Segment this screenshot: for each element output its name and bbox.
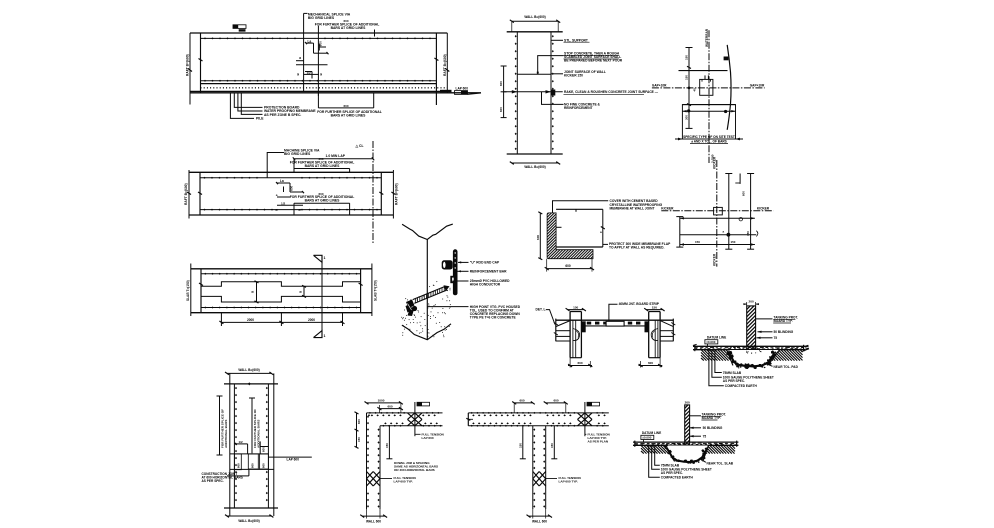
slab aggregate dashes <box>695 347 698 348</box>
right dimension <box>602 209 604 247</box>
svg-text:600: 600 <box>250 463 254 468</box>
svg-text:GAP+10R: GAP+10R <box>750 84 765 88</box>
edge angles (dark) <box>582 321 586 332</box>
bar section circles <box>739 218 742 221</box>
section line through X <box>584 402 586 436</box>
svg-text:600: 600 <box>565 264 571 268</box>
membrane L-shape hatched <box>547 213 593 259</box>
bottom rebar w ticks <box>201 307 361 309</box>
horizontal wall bottom line w ticks <box>380 425 443 427</box>
svg-text:LAP 600: LAP 600 <box>456 87 469 91</box>
inner wall bottom line <box>556 246 603 248</box>
section line through X <box>414 402 416 436</box>
svg-text:RAFT B=(600): RAFT B=(600) <box>186 54 190 76</box>
svg-text:WALL B=(600): WALL B=(600) <box>238 519 259 523</box>
body edges <box>199 172 201 215</box>
leader: rod end cap <box>458 261 469 263</box>
note: steel support <box>551 39 563 41</box>
top rebar w ticks <box>200 177 381 179</box>
svg-text:BARS AT GRID LINES: BARS AT GRID LINES <box>331 26 367 30</box>
top dimension left of stem <box>514 402 533 404</box>
svg-text:TYPE PE T=6 CM CONCRETE: TYPE PE T=6 CM CONCRETE <box>470 316 517 320</box>
clamp block on curve <box>724 57 729 61</box>
svg-text:600: 600 <box>319 192 324 196</box>
lap note at stem X <box>546 478 557 480</box>
slab end marks <box>634 441 636 447</box>
hatched wall <box>747 306 756 350</box>
svg-text:MEMBRANE AT WALL JOINT: MEMBRANE AT WALL JOINT <box>610 206 655 210</box>
svg-text:SLAB T=(150): SLAB T=(150) <box>373 280 377 301</box>
wall right line w ticks <box>550 32 552 154</box>
bottom rebar w ticks <box>200 209 381 211</box>
svg-text:600: 600 <box>387 404 392 408</box>
svg-text:BARS AT GRID LINES: BARS AT GRID LINES <box>305 199 341 203</box>
wall right line w ticks <box>267 384 269 508</box>
rubble in pit <box>667 448 708 463</box>
svg-text:KICKER: KICKER <box>757 207 770 211</box>
inner splice bracket <box>251 398 253 453</box>
centre column box <box>714 207 723 215</box>
bottom dimension arrows <box>675 138 682 140</box>
svg-text:1/2: 1/2 <box>281 202 286 206</box>
svg-text:75: 75 <box>703 434 707 438</box>
bottom dimension <box>362 515 385 517</box>
section flag pole <box>321 262 323 331</box>
hook bars in right kicker <box>651 329 658 341</box>
raft right edge <box>435 33 437 105</box>
horizontal wall bottom line w ticks <box>468 425 609 427</box>
X lap mark in horizontal wall <box>578 413 585 420</box>
hatched wall <box>685 405 690 448</box>
svg-text:600: 600 <box>499 107 503 112</box>
note leader 2 <box>690 427 701 429</box>
svg-text:1.0 MIN LAP: 1.0 MIN LAP <box>326 154 346 158</box>
top dimension <box>227 372 271 374</box>
section flag right with LAP text <box>440 90 452 93</box>
svg-text:1/2: 1/2 <box>307 71 312 75</box>
coupler cylinder <box>442 260 453 269</box>
svg-text:600: 600 <box>344 104 349 108</box>
top edge <box>224 383 278 385</box>
svg-text:40: 40 <box>693 88 697 92</box>
construction joint line 1 <box>517 73 551 75</box>
lap note at X <box>585 433 586 435</box>
right dimension line <box>371 264 373 317</box>
svg-text:600: 600 <box>357 419 361 424</box>
bottom chord line <box>201 83 437 85</box>
centre line (dash-dot) <box>372 141 374 243</box>
svg-text:50 BLINDING: 50 BLINDING <box>703 426 723 430</box>
soil hatch band <box>701 358 704 361</box>
svg-text:SLAB T=(150): SLAB T=(150) <box>186 280 190 301</box>
svg-text:COMPACTED EARTH: COMPACTED EARTH <box>661 476 694 480</box>
top dimension 1 <box>367 402 401 404</box>
step bracket left <box>236 443 248 445</box>
bottom dimension <box>512 162 558 164</box>
svg-text:AS PER PLAN: AS PER PLAN <box>588 440 609 444</box>
drill chuck blobs <box>406 300 415 309</box>
bent waterstop curve <box>727 45 731 130</box>
X lap mark in horizontal wall <box>408 413 415 420</box>
lap boxes <box>234 454 241 470</box>
svg-text:150: 150 <box>685 75 689 80</box>
inner dimension 150 <box>388 426 390 459</box>
note: tanking leader <box>756 318 773 320</box>
joint bottom line between kickers <box>581 325 648 327</box>
joint line lower <box>230 468 274 470</box>
left wing slab <box>555 319 557 342</box>
centre box (column) <box>700 79 713 95</box>
left dim line <box>679 217 681 248</box>
vertical dim line 2 <box>750 174 752 250</box>
cover plate <box>606 321 624 326</box>
svg-text:KICKER: KICKER <box>713 156 717 169</box>
pile cap line <box>190 90 447 92</box>
body edges <box>200 269 202 313</box>
svg-text:PILE: PILE <box>256 117 264 121</box>
bottom rebar with ticks <box>201 80 437 82</box>
top dimension right of stem <box>546 402 566 404</box>
inner tie line with bar circles <box>682 110 735 112</box>
wall left end <box>467 413 469 426</box>
left kicker top dim <box>568 309 584 311</box>
bottom dimension <box>547 268 592 270</box>
svg-text:La: La <box>308 39 312 43</box>
svg-text:±0.000: ±0.000 <box>642 436 651 440</box>
horizontal centreline <box>661 210 773 212</box>
leader: reinforcement bar <box>456 270 469 272</box>
left pour bracket <box>503 66 505 118</box>
right bottom dimension <box>639 365 663 367</box>
tie line 2 with end hook <box>680 234 757 236</box>
bottom dimension <box>227 515 271 517</box>
svg-text:200: 200 <box>685 400 690 404</box>
svg-text:BARS AT GRID LINES: BARS AT GRID LINES <box>305 164 341 168</box>
splice step symbol lower <box>296 64 328 66</box>
svg-text:± AND X TOL. OF BARS: ± AND X TOL. OF BARS <box>691 139 727 143</box>
leader to stop-concrete note <box>538 56 564 75</box>
hook bars in left kicker <box>573 329 580 341</box>
svg-text:300: 300 <box>685 115 689 120</box>
svg-text:75: 75 <box>774 336 778 340</box>
raft left edge <box>200 33 202 93</box>
svg-text:1: 1 <box>324 334 326 338</box>
svg-text:600: 600 <box>290 185 294 190</box>
sleeve on rod <box>450 276 457 283</box>
svg-text:600: 600 <box>519 399 524 403</box>
vertical centreline <box>708 30 710 163</box>
lap note at X <box>415 433 421 435</box>
svg-text:WALL B=(600): WALL B=(600) <box>524 165 545 169</box>
top chord <box>191 268 372 270</box>
svg-text:GAP+10R: GAP+10R <box>652 84 667 88</box>
horizontal wall top line w ticks <box>468 412 609 414</box>
top edge <box>507 31 563 33</box>
svg-text:REINFORCEMENT: REINFORCEMENT <box>564 106 593 110</box>
right kicker top dim <box>646 309 662 311</box>
svg-text:BIG GRID LINES: BIG GRID LINES <box>308 16 335 20</box>
svg-text:△ CL: △ CL <box>355 144 364 148</box>
leader into wall <box>556 226 561 228</box>
staggered lap line upper <box>201 282 361 287</box>
left dimension line <box>688 48 690 129</box>
splice leader verticals <box>303 13 305 91</box>
svg-text:"U" ROD END CAP: "U" ROD END CAP <box>470 261 500 265</box>
note leader 3 <box>690 435 701 437</box>
horizontal wall top line w ticks <box>367 412 443 414</box>
excavation pit <box>666 446 708 462</box>
wall left line w ticks <box>516 32 518 154</box>
svg-text:WALL B=(600): WALL B=(600) <box>524 15 545 19</box>
top chord line <box>190 32 447 34</box>
svg-text:KICKER: KICKER <box>661 207 674 211</box>
lap note at stem X <box>380 478 392 480</box>
svg-text:600: 600 <box>262 463 266 468</box>
inner dimension left 150 <box>522 426 524 459</box>
section flag box <box>587 402 600 406</box>
svg-text:600: 600 <box>319 157 324 161</box>
svg-text:150: 150 <box>652 305 657 309</box>
vertical dim line 1 <box>728 174 730 250</box>
svg-text:600: 600 <box>261 447 265 452</box>
svg-text:2000: 2000 <box>247 318 254 322</box>
rock stipple texture <box>434 305 435 306</box>
wall left line w ticks <box>233 384 235 508</box>
left dimension <box>539 213 541 259</box>
joint filler dashes <box>587 322 591 325</box>
top rebar w ticks <box>201 273 361 275</box>
svg-text:DATUM LINE: DATUM LINE <box>707 335 726 339</box>
svg-text:RAFT B=(600): RAFT B=(600) <box>184 183 188 205</box>
left kicker walls <box>569 312 571 358</box>
svg-text:600: 600 <box>577 361 582 365</box>
vertical wall left line w ticks <box>366 413 368 509</box>
leaders to bottom notes <box>715 350 722 373</box>
rock break line bottom <box>402 324 451 340</box>
joint line upper <box>230 453 269 455</box>
note: near tol slab <box>700 458 706 462</box>
right kicker walls <box>648 312 650 358</box>
svg-text:600: 600 <box>741 191 745 196</box>
svg-text:DET. L: DET. L <box>536 308 546 312</box>
X lap mark in stem <box>533 472 539 479</box>
splice step symbols <box>277 182 290 184</box>
bottom edge <box>224 507 278 509</box>
left dimension line <box>189 33 191 105</box>
svg-text:SPECIFIC TYPE OF ON SITE TEST: SPECIFIC TYPE OF ON SITE TEST <box>683 135 735 139</box>
hatch second rows <box>371 414 374 416</box>
svg-text:150: 150 <box>685 55 689 60</box>
svg-text:600: 600 <box>536 235 540 240</box>
svg-text:BE PREPARED BEFORE NEXT POUR: BE PREPARED BEFORE NEXT POUR <box>564 59 623 63</box>
svg-text:BARS AT GRID LINES: BARS AT GRID LINES <box>331 114 367 118</box>
left dimension <box>356 413 358 447</box>
vertical wall right line w ticks <box>379 426 381 509</box>
svg-text:WALL B=(600): WALL B=(600) <box>238 368 259 372</box>
note: near tol pad <box>764 363 773 367</box>
svg-text:600: 600 <box>499 81 503 86</box>
membrane leader <box>553 201 609 213</box>
leader: pvc conductor <box>453 280 469 282</box>
svg-text:NEAR TOL. PAD: NEAR TOL. PAD <box>774 365 799 369</box>
note: 75 leader <box>757 337 773 339</box>
right dimension line <box>446 33 448 93</box>
grade slab <box>693 345 805 347</box>
svg-text:RAFT B=(600): RAFT B=(600) <box>394 183 398 205</box>
svg-text:150: 150 <box>519 443 523 448</box>
rock break line top <box>402 224 453 239</box>
svg-text:150: 150 <box>573 305 578 309</box>
svg-text:75MM SLAB: 75MM SLAB <box>723 371 742 375</box>
rubble in pit <box>729 353 775 367</box>
svg-text:LAP 600: LAP 600 <box>287 458 300 462</box>
svg-text:150: 150 <box>695 240 700 244</box>
svg-text:WATERBAR: WATERBAR <box>705 28 709 47</box>
svg-text:600: 600 <box>236 463 240 468</box>
svg-text:150: 150 <box>357 437 361 442</box>
lower kicker rectangle <box>682 105 735 139</box>
svg-text:200: 200 <box>749 300 754 304</box>
slab end marks <box>694 345 696 351</box>
bottom dimension <box>529 515 551 517</box>
bottom chord <box>189 214 393 216</box>
vertical rock edge <box>426 240 428 340</box>
svg-text:150: 150 <box>385 443 389 448</box>
svg-text:LAP 600: LAP 600 <box>422 436 434 440</box>
top rebar with ticks <box>201 37 437 39</box>
svg-text:WALL 600: WALL 600 <box>366 520 381 524</box>
protection board dotted line <box>201 87 448 89</box>
svg-text:LAP 600 TYP.: LAP 600 TYP. <box>394 479 413 483</box>
svg-text:OR 400 HORIZONTAL BARS: OR 400 HORIZONTAL BARS <box>394 468 435 472</box>
svg-text:RAKE, CLEAN & ROUGHEN CONCRETE: RAKE, CLEAN & ROUGHEN CONCRETE JOINT SUR… <box>564 90 659 94</box>
svg-text:150: 150 <box>550 443 554 448</box>
stub bars above box <box>704 75 706 79</box>
section flag top <box>314 255 323 262</box>
svg-text:1: 1 <box>324 256 326 260</box>
top chord <box>189 171 393 173</box>
outer dim verticals <box>229 373 231 516</box>
left bottom dimension <box>568 365 592 367</box>
inner dimension right 150 <box>553 426 555 459</box>
svg-text:DATUM LINE: DATUM LINE <box>642 431 661 435</box>
svg-text:a: a <box>276 193 278 197</box>
staggered lap line lower <box>201 296 361 302</box>
svg-text:REINFORCEMENT BAR: REINFORCEMENT BAR <box>470 270 507 274</box>
leader: high point note <box>427 306 468 308</box>
svg-text:50 BLINDING: 50 BLINDING <box>774 330 794 334</box>
svg-text:LAP 600 TYP.: LAP 600 TYP. <box>559 479 578 483</box>
svg-text:1000: 1000 <box>378 399 385 403</box>
right dimension line <box>392 170 394 219</box>
note leader 1 <box>690 415 701 417</box>
excavation pit <box>728 350 779 365</box>
svg-text:a: a <box>600 230 602 234</box>
section flag bottom <box>314 331 323 338</box>
svg-text:600: 600 <box>319 41 323 46</box>
right wing slab <box>672 319 674 342</box>
inner wall top line <box>556 208 603 210</box>
leaders to bottom notes <box>655 445 660 465</box>
top dimension 2 <box>379 408 401 410</box>
svg-text:AS PER SPEC.: AS PER SPEC. <box>661 471 683 475</box>
step bracket right <box>259 441 261 454</box>
reinforcement bar (vertical rod) <box>453 249 458 295</box>
wall face line upper <box>679 70 728 72</box>
svg-text:TO APPLY AT WALL AS REQUIRED.: TO APPLY AT WALL AS REQUIRED. <box>609 246 665 250</box>
hatched diagonal conductor bar <box>414 290 447 304</box>
svg-text:BIG GRID LINES: BIG GRID LINES <box>284 152 311 156</box>
svg-text:2000: 2000 <box>308 318 315 322</box>
top dimension <box>512 20 558 22</box>
svg-text:NEAR TOL. SLAB: NEAR TOL. SLAB <box>707 461 734 465</box>
lap 600 leader line <box>268 456 311 458</box>
lap connectors <box>256 282 258 302</box>
X lap mark in vertical wall <box>367 472 374 479</box>
svg-text:ADDITIONAL BARS: ADDITIONAL BARS <box>224 420 228 448</box>
svg-text:COMPACTED EARTH: COMPACTED EARTH <box>725 384 758 388</box>
left dimension line <box>190 264 192 317</box>
svg-text:RAFT B=(600): RAFT B=(600) <box>443 54 447 76</box>
svg-text:150: 150 <box>731 240 736 244</box>
svg-text:STL. SUPPORT: STL. SUPPORT <box>564 38 588 42</box>
svg-text:La: La <box>280 179 284 183</box>
slab aggregate dashes <box>635 443 638 444</box>
svg-text:AS PER SPEC.: AS PER SPEC. <box>723 379 745 383</box>
bottom dimension line <box>221 321 342 323</box>
edge mid ticks <box>198 192 202 195</box>
section flag left <box>233 25 246 29</box>
svg-text:600: 600 <box>344 19 349 23</box>
svg-text:AS PER ZONE B SPEC.: AS PER ZONE B SPEC. <box>264 113 301 117</box>
svg-text:600: 600 <box>553 399 558 403</box>
svg-text:600: 600 <box>648 361 653 365</box>
svg-text:1/2: 1/2 <box>239 440 243 444</box>
section flag box <box>417 402 430 406</box>
kicker bottom ticks <box>570 357 581 359</box>
vertical centreline <box>716 160 718 267</box>
leaders to lower notes <box>230 93 254 119</box>
svg-text:±0.000: ±0.000 <box>706 340 715 344</box>
left splice bracket <box>219 396 221 455</box>
grade slab <box>633 441 738 443</box>
stem left line w ticks <box>532 426 534 509</box>
slab top line <box>556 319 674 321</box>
left dimension line <box>188 170 190 219</box>
horizontal centreline <box>652 87 765 89</box>
note: blinding leader <box>758 331 773 333</box>
splice step symbol upper <box>306 42 314 44</box>
svg-text:KICKER: KICKER <box>713 253 717 266</box>
bottom annotation bracket <box>317 93 319 108</box>
joint line 2 with arrows <box>504 91 563 93</box>
svg-text:AS PER SPEC.: AS PER SPEC. <box>202 479 224 483</box>
stem right line w ticks <box>545 426 547 509</box>
soil hatch band <box>641 451 644 454</box>
bottom chord <box>191 312 372 314</box>
wall face line lower <box>682 104 735 106</box>
hatch second rows <box>472 414 475 416</box>
svg-text:WALL 600: WALL 600 <box>532 520 547 524</box>
bottom edge <box>507 153 563 155</box>
step below <box>248 469 250 476</box>
tie line 3 with arrows <box>680 244 755 246</box>
tie line 1 with arrows <box>680 217 755 219</box>
svg-text:a: a <box>299 56 301 60</box>
svg-text:KICKER 150: KICKER 150 <box>564 74 583 78</box>
svg-text:HIGH CONDUCTOR: HIGH CONDUCTOR <box>470 283 501 287</box>
short vertical w tick <box>739 174 741 184</box>
